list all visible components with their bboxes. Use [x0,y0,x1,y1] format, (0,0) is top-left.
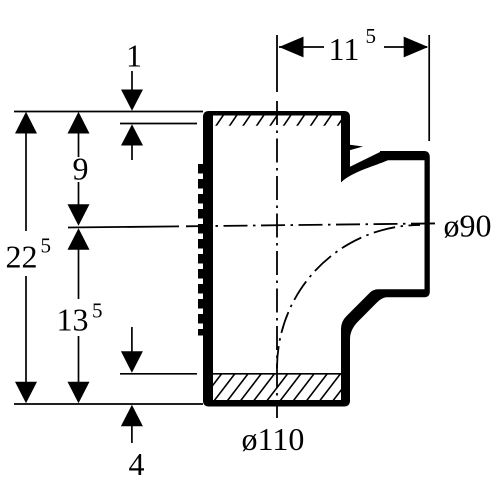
svg-text:13: 13 [57,301,89,337]
svg-text:1: 1 [126,38,142,74]
svg-text:5: 5 [41,234,52,258]
svg-text:4: 4 [129,446,145,482]
svg-text:ø110: ø110 [242,421,305,457]
svg-text:5: 5 [366,24,377,48]
svg-text:9: 9 [73,151,89,187]
svg-text:5: 5 [92,299,103,323]
svg-text:11: 11 [329,31,360,67]
svg-text:22: 22 [6,238,38,274]
svg-text:ø90: ø90 [444,208,492,244]
